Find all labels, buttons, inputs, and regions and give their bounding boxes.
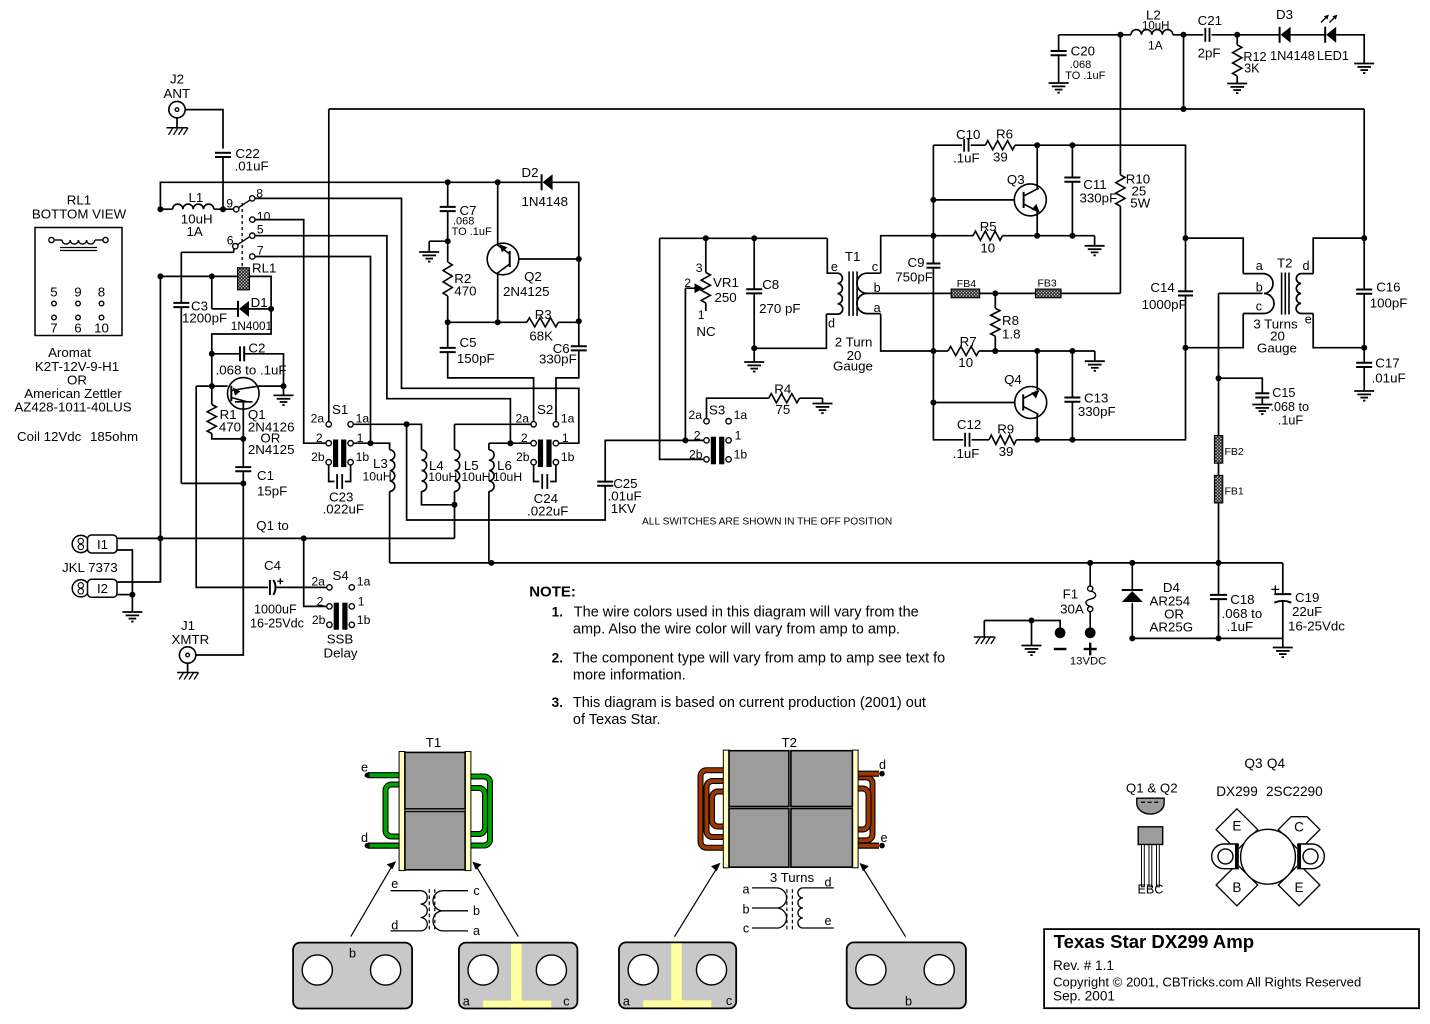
svg-text:a: a — [742, 883, 749, 897]
svg-text:10: 10 — [257, 209, 271, 223]
wire — [660, 237, 828, 239]
wire — [685, 439, 703, 441]
wire — [329, 108, 1364, 110]
svg-text:d: d — [828, 317, 835, 331]
package tab E top-left — [1216, 809, 1258, 851]
transformer T1 — [826, 249, 880, 374]
junction — [1216, 375, 1222, 381]
T1 package b (2SC2290) — [293, 943, 412, 1009]
svg-text:T1: T1 — [845, 249, 861, 264]
svg-text:16-25Vdc: 16-25Vdc — [1288, 619, 1345, 634]
junction — [1117, 32, 1123, 38]
package body circle — [1241, 829, 1296, 884]
junction — [682, 437, 688, 443]
svg-text:Q1 & Q2: Q1 & Q2 — [1126, 781, 1178, 796]
svg-text:7: 7 — [257, 244, 264, 258]
wire — [212, 309, 271, 354]
wire — [353, 443, 389, 450]
relay contact 6 — [233, 244, 238, 249]
svg-text:S2: S2 — [537, 402, 553, 417]
T1 lead d — [361, 831, 400, 848]
capacitor C14 1000pF — [1142, 280, 1193, 312]
wire — [933, 144, 962, 146]
junction — [930, 400, 936, 406]
T2 core lower-right — [791, 809, 853, 868]
junction — [1183, 235, 1189, 241]
resistor R9 39 — [989, 422, 1016, 460]
svg-text:2a: 2a — [516, 411, 530, 425]
svg-text:2b: 2b — [311, 450, 325, 464]
diode D1 1N4001 — [231, 295, 272, 333]
capacitor C20 .068 TO .1uF — [1051, 44, 1106, 83]
svg-text:d: d — [879, 758, 886, 772]
wire — [1059, 34, 1131, 36]
capacitor C23 .022uF — [323, 474, 364, 516]
wire — [660, 238, 704, 459]
svg-text:e: e — [824, 914, 831, 928]
wire — [754, 314, 826, 348]
svg-text:T2: T2 — [1277, 256, 1293, 271]
wire — [932, 145, 934, 263]
wire — [705, 238, 707, 272]
ferrite bead FB4 — [951, 289, 979, 298]
junction — [1361, 235, 1367, 241]
wire — [429, 240, 448, 242]
capacitor C5 150pF — [440, 335, 495, 366]
wire — [1119, 206, 1121, 293]
RL1 bottom view coil symbol — [49, 237, 108, 250]
resistor R6 39 — [985, 127, 1015, 165]
T1 winding loop left — [386, 785, 411, 837]
capacitor C25 .01uF 1KV — [597, 476, 641, 516]
svg-text:2a: 2a — [311, 574, 325, 588]
junction — [703, 235, 709, 241]
wire — [447, 322, 449, 348]
svg-text:d: d — [361, 831, 368, 845]
relay actuator dashed link — [241, 203, 243, 268]
junction — [268, 306, 274, 312]
svg-text:3: 3 — [696, 261, 703, 275]
svg-text:Q4: Q4 — [1004, 372, 1022, 387]
wire — [553, 182, 579, 346]
svg-text:b: b — [473, 904, 480, 918]
transistor Q2 2N4125 — [487, 243, 549, 299]
inductor L2 10uH 1A — [1131, 8, 1173, 53]
wire — [447, 182, 449, 207]
wire — [196, 385, 227, 387]
indicator lamp I2 — [72, 580, 89, 597]
relay lever 9-8 — [239, 200, 250, 208]
fuse F1 30A — [1060, 563, 1096, 628]
wire — [160, 182, 541, 209]
svg-text:2b: 2b — [312, 613, 326, 627]
note 2 — [552, 651, 946, 684]
svg-text:R7: R7 — [960, 334, 977, 349]
wire — [800, 397, 823, 399]
svg-text:c: c — [1256, 300, 1262, 314]
wire — [448, 321, 527, 323]
junction — [281, 383, 287, 389]
junction — [576, 318, 582, 324]
ferrite bead FB3 — [1036, 289, 1062, 298]
diode D3 1N4148 — [1270, 7, 1315, 63]
junction — [1129, 635, 1135, 641]
wire — [1015, 145, 1186, 238]
capacitor C3 1200pF — [173, 299, 227, 326]
wire — [1173, 34, 1204, 36]
pointer to T2 right — [860, 863, 906, 937]
capacitor C16 100pF — [1356, 280, 1407, 311]
svg-text:1a: 1a — [734, 408, 748, 422]
T2 winding diagram — [742, 870, 833, 935]
wire — [181, 482, 243, 484]
svg-text:a: a — [1256, 259, 1263, 273]
wire — [211, 354, 213, 386]
svg-text:9: 9 — [74, 285, 81, 300]
svg-text:C4: C4 — [264, 558, 281, 573]
svg-text:R5: R5 — [980, 219, 997, 234]
wire — [212, 308, 238, 310]
ground at LED1 — [1354, 63, 1374, 65]
wire — [605, 440, 682, 481]
T2 bobbin right — [852, 750, 858, 868]
inductor L3 10uH — [363, 450, 395, 492]
capacitor C10 .1uF — [953, 127, 980, 166]
svg-text:FB2: FB2 — [1225, 446, 1244, 458]
wire — [1036, 145, 1038, 189]
wire — [519, 258, 579, 260]
wire — [1236, 76, 1238, 84]
wire — [1282, 602, 1284, 648]
junction — [1069, 233, 1075, 239]
junction — [576, 256, 582, 262]
resistor R4 75 — [769, 382, 800, 418]
indicator lamp I1 — [72, 535, 89, 552]
wire — [185, 110, 223, 149]
svg-text:Q1 to: Q1 to — [256, 518, 289, 533]
svg-text:a: a — [623, 995, 630, 1009]
svg-text:C9: C9 — [908, 255, 925, 270]
svg-text:1: 1 — [698, 308, 705, 322]
svg-text:The wire colors used in this d: The wire colors used in this diagram wil… — [574, 605, 919, 621]
svg-text:c: c — [872, 260, 878, 274]
junction — [240, 436, 246, 442]
svg-text:250: 250 — [715, 290, 737, 305]
svg-text:FB1: FB1 — [1225, 486, 1244, 498]
ground at C20 — [1049, 82, 1069, 84]
ferrite bead FB1 — [1215, 475, 1223, 503]
junction — [1181, 106, 1187, 112]
T2 package b (2SC2290) — [847, 942, 966, 1008]
svg-text:E: E — [1232, 819, 1241, 834]
svg-text:C: C — [1294, 819, 1304, 834]
svg-text:NC: NC — [696, 324, 716, 339]
svg-text:2N4125: 2N4125 — [248, 442, 295, 457]
junction — [1034, 348, 1040, 354]
T2 bobbin left — [723, 750, 729, 868]
svg-text:b: b — [905, 995, 912, 1009]
svg-text:e: e — [391, 877, 398, 891]
svg-text:e: e — [361, 761, 368, 775]
capacitor C8 270 pF — [746, 277, 800, 316]
diode D4 AR254 OR AR25G — [1122, 563, 1193, 639]
junction — [368, 440, 374, 446]
T2 lead e — [856, 831, 888, 848]
svg-text:D1: D1 — [251, 295, 268, 310]
junction — [1034, 233, 1040, 239]
connector J2 ANT — [164, 72, 191, 118]
svg-text:1a: 1a — [356, 411, 370, 425]
svg-text:C17: C17 — [1375, 356, 1399, 371]
svg-text:2a: 2a — [311, 411, 325, 425]
svg-text:a: a — [473, 924, 480, 938]
capacitor C2 .068 to .1uF — [216, 341, 287, 378]
wire — [972, 439, 990, 441]
wire — [345, 465, 351, 482]
RL1 pin 7 — [52, 315, 57, 320]
wire — [1282, 563, 1284, 594]
junction — [452, 502, 458, 508]
potentiometer VR1 250 — [684, 261, 739, 339]
ferrite bead FB2 — [1215, 436, 1223, 464]
wire — [534, 465, 540, 482]
wire — [211, 386, 213, 404]
wire — [448, 352, 534, 422]
ground at C17 — [1354, 390, 1374, 392]
capacitor C24 .022uF — [527, 474, 568, 518]
wire — [407, 424, 606, 520]
title block — [1044, 929, 1419, 1008]
svg-text:1a: 1a — [561, 411, 575, 425]
svg-text:13VDC: 13VDC — [1070, 656, 1106, 668]
wire — [242, 439, 244, 467]
svg-text:470: 470 — [454, 284, 476, 299]
svg-text:8: 8 — [98, 285, 105, 300]
svg-text:E: E — [1295, 880, 1304, 895]
svg-text:270 pF: 270 pF — [759, 301, 800, 316]
ground at R4 — [822, 398, 824, 403]
wire — [222, 157, 224, 209]
junction — [240, 480, 246, 486]
wire — [1058, 55, 1060, 83]
wire — [255, 220, 326, 444]
junction — [1034, 437, 1040, 443]
svg-text:Aromat: Aromat — [48, 345, 91, 360]
wire — [159, 538, 161, 582]
package tab E bottom-right — [1278, 864, 1320, 906]
wire — [258, 385, 284, 387]
wire — [933, 402, 1014, 404]
junction — [220, 206, 226, 212]
transistor Q3 — [1007, 172, 1046, 216]
capacitor C9 750pF — [895, 255, 940, 285]
svg-text:.1uF: .1uF — [1227, 619, 1254, 634]
svg-text:2pF: 2pF — [1198, 46, 1221, 61]
wire — [211, 276, 213, 309]
svg-text:10uH: 10uH — [1142, 21, 1170, 33]
chassis ground near 13VDC — [983, 621, 985, 638]
capacitor C19 22uF 16-25Vdc (polarized) — [1271, 585, 1345, 633]
wire — [389, 491, 391, 563]
svg-text:6: 6 — [227, 233, 234, 247]
svg-text:NOTE:: NOTE: — [529, 584, 576, 601]
wire — [196, 386, 268, 587]
transformer T2 — [1243, 256, 1313, 356]
wire — [1186, 238, 1244, 274]
T1 lead e — [361, 761, 400, 778]
svg-text:B: B — [1232, 880, 1241, 895]
wire — [1119, 35, 1121, 175]
wire — [1218, 463, 1220, 475]
svg-text:This diagram is based on curre: This diagram is based on current product… — [573, 695, 926, 711]
wire — [390, 562, 1283, 564]
resistor R5 10 — [973, 219, 1003, 256]
svg-text:330pF: 330pF — [1080, 191, 1118, 206]
svg-text:of Texas Star.: of Texas Star. — [573, 712, 661, 728]
svg-text:1KV: 1KV — [611, 501, 636, 516]
svg-text:T1: T1 — [426, 735, 442, 750]
resistor R1 470 — [207, 405, 241, 435]
relay contact 7 — [250, 254, 255, 259]
svg-text:1000uF: 1000uF — [254, 603, 297, 617]
svg-text:.068 to: .068 to — [1271, 400, 1310, 414]
svg-text:1.: 1. — [552, 605, 563, 620]
junction — [1069, 437, 1075, 443]
svg-text:C1: C1 — [257, 468, 274, 483]
svg-text:C12: C12 — [957, 417, 981, 432]
wire — [1336, 35, 1364, 64]
svg-text:3 Turns: 3 Turns — [770, 870, 815, 885]
resistor R7 10 — [948, 334, 979, 370]
wire — [1218, 563, 1220, 595]
switch S1 — [311, 402, 370, 467]
package tab B bottom-left — [1216, 864, 1258, 906]
svg-text:Q3: Q3 — [1244, 756, 1262, 771]
svg-text:SSB: SSB — [327, 632, 354, 647]
wire — [881, 314, 934, 351]
svg-text:Gauge: Gauge — [833, 359, 873, 374]
junction — [1069, 348, 1075, 354]
ground at Q1 emitter — [283, 386, 285, 395]
svg-text:VR1: VR1 — [713, 275, 739, 290]
svg-text:6: 6 — [74, 321, 81, 336]
wire — [1071, 145, 1073, 177]
wire — [328, 109, 330, 422]
svg-text:.1uF: .1uF — [1278, 414, 1304, 428]
wire — [159, 276, 161, 538]
junction — [129, 592, 135, 598]
svg-text:c: c — [743, 921, 749, 935]
wire — [1218, 599, 1220, 638]
capacitor C7 .068 TO .1uF — [440, 203, 492, 238]
junction — [1361, 345, 1367, 351]
wire — [707, 398, 769, 418]
svg-text:39: 39 — [993, 150, 1008, 165]
capacitor C17 .01uF — [1356, 356, 1405, 386]
wire — [1003, 235, 1095, 237]
svg-text:C19: C19 — [1295, 590, 1319, 605]
wire — [1016, 348, 1185, 440]
junction — [1087, 560, 1093, 566]
svg-text:Coil 12Vdc: Coil 12Vdc — [17, 429, 82, 444]
junction — [445, 179, 451, 185]
svg-text:5: 5 — [50, 285, 57, 300]
junction — [488, 560, 494, 566]
svg-text:Sep. 2001: Sep. 2001 — [1053, 989, 1115, 1004]
package mounting lug left — [1212, 844, 1239, 869]
wire — [933, 350, 948, 352]
svg-text:3K: 3K — [1244, 62, 1260, 76]
svg-text:C18: C18 — [1230, 592, 1254, 607]
T1 bobbin right — [465, 752, 471, 871]
inductor L4 10uH — [422, 450, 458, 492]
wire — [1218, 503, 1220, 563]
junction — [1129, 560, 1135, 566]
svg-text:JKL 7373: JKL 7373 — [62, 560, 118, 575]
svg-text:FB3: FB3 — [1038, 278, 1057, 290]
resistor R12 3K — [1233, 45, 1267, 76]
junction — [1069, 142, 1075, 148]
svg-text:2b: 2b — [689, 447, 703, 461]
junction — [209, 273, 215, 279]
svg-text:C10: C10 — [956, 127, 980, 142]
svg-text:RL1: RL1 — [252, 261, 276, 276]
svg-text:10uH: 10uH — [493, 470, 522, 484]
junction — [404, 421, 410, 427]
svg-text:2a: 2a — [688, 408, 702, 422]
wire — [1036, 414, 1038, 440]
capacitor C22 .01uF — [215, 146, 269, 173]
terminal + 13VDC — [1085, 627, 1096, 638]
ground at C7 — [428, 241, 430, 252]
wire — [488, 491, 490, 563]
junction — [445, 319, 451, 325]
svg-text:Gauge: Gauge — [1257, 341, 1297, 356]
wire — [1313, 238, 1364, 274]
svg-text:10uH: 10uH — [461, 470, 490, 484]
svg-text:D2: D2 — [522, 165, 539, 180]
wire — [454, 424, 456, 450]
svg-text:Delay: Delay — [324, 646, 358, 661]
wire — [933, 235, 973, 237]
svg-text:.1uF: .1uF — [953, 151, 980, 166]
svg-text:Q4: Q4 — [1267, 756, 1286, 771]
wire — [1212, 34, 1280, 36]
wire — [277, 586, 327, 588]
relay contact 5 — [250, 233, 255, 238]
svg-text:ALL SWITCHES ARE SHOWN IN THE: ALL SWITCHES ARE SHOWN IN THE OFF POSITI… — [642, 517, 892, 528]
T2 core upper-left — [729, 751, 789, 807]
ground at R5 row — [1094, 236, 1096, 246]
T1 bobbin left — [399, 752, 405, 871]
svg-text:J2: J2 — [170, 72, 184, 87]
ground under J1 — [187, 663, 189, 672]
Q1 Q2 package TO-92 — [1126, 781, 1178, 897]
svg-text:TO .1uF: TO .1uF — [1065, 70, 1105, 82]
svg-text:AR25G: AR25G — [1150, 620, 1194, 635]
relay part text — [14, 345, 131, 415]
svg-text:C8: C8 — [762, 277, 779, 292]
svg-text:Q3: Q3 — [1007, 172, 1025, 187]
resistor R8 1.8 — [991, 308, 1021, 341]
package tab C top-right (index cut) — [1278, 817, 1320, 851]
svg-text:185ohm: 185ohm — [90, 429, 138, 444]
wire — [1218, 293, 1220, 435]
svg-text:R4: R4 — [774, 382, 791, 397]
ground at C19 — [1273, 647, 1293, 649]
svg-text:15pF: 15pF — [257, 484, 287, 499]
resistor R3 68K — [527, 307, 559, 344]
